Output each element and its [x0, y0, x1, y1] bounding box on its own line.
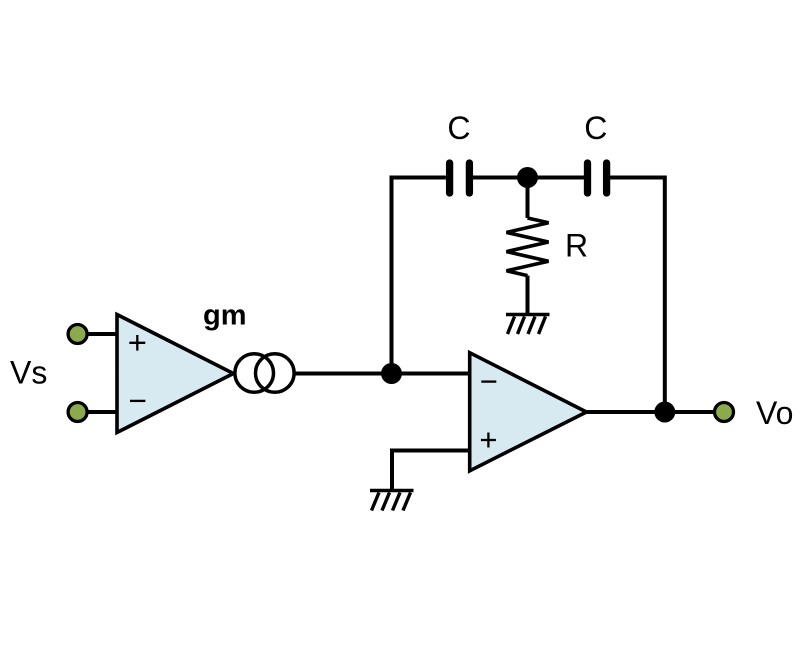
node B junction (between caps): [517, 167, 538, 188]
ground G1 (below R): [506, 315, 550, 335]
wire Vs+ to OTA: [88, 332, 118, 336]
node C junction (output): [654, 402, 675, 423]
svg-text:Vs: Vs: [10, 355, 47, 391]
capacitor C1: [450, 163, 470, 193]
terminal Vs-: [68, 403, 87, 422]
wire resistor to ground: [526, 276, 530, 315]
wire top rail right segment, down to output node: [610, 178, 665, 413]
minus sign U1: [130, 400, 145, 402]
node A junction: [381, 363, 402, 384]
minus sign U2: [481, 380, 496, 382]
svg-text:gm: gm: [203, 300, 247, 332]
plus sign U2: [481, 433, 496, 448]
wire node A up to top rail: [392, 178, 446, 374]
capacitor C2: [588, 163, 607, 193]
wire current source to node A: [294, 372, 470, 376]
op-amp gm (OTA U1): [117, 315, 233, 433]
ground G2 (below U2 + input): [370, 491, 414, 511]
op-amp U2: [470, 353, 587, 471]
svg-text:C: C: [584, 110, 607, 146]
svg-text:Vo: Vo: [756, 395, 793, 431]
current source symbol (double circle): [235, 354, 274, 393]
wire between C1 and C2: [473, 176, 584, 180]
terminal Vo: [715, 403, 734, 422]
wire Vs- to OTA: [88, 410, 118, 414]
wire U2 output: [587, 410, 714, 414]
svg-text:R: R: [565, 228, 588, 264]
plus sign U1: [129, 335, 145, 351]
svg-text:C: C: [447, 110, 470, 146]
wire U2 plus input and down to ground G2: [392, 451, 470, 491]
terminal Vs+: [68, 325, 87, 344]
resistor R: [507, 218, 549, 276]
wire node B to resistor: [526, 178, 530, 219]
